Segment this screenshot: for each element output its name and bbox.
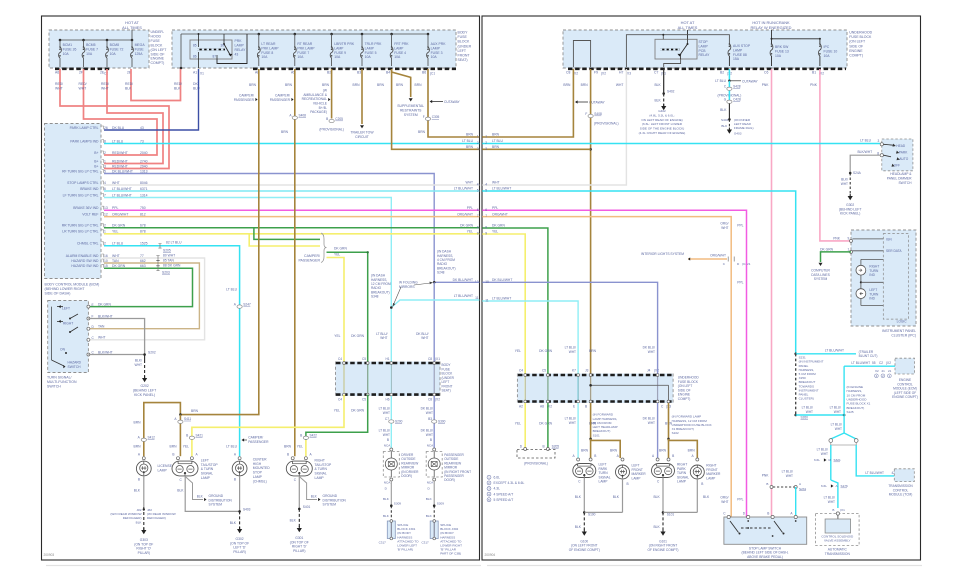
svg-text:BRN: BRN — [492, 145, 500, 149]
svg-text:PCB: PCB — [699, 49, 707, 53]
svg-text:EXCEPT 4.3L & 6.6L: EXCEPT 4.3L & 6.6L — [494, 481, 525, 485]
svg-text:WHT: WHT — [383, 411, 390, 415]
svg-text:BLK: BLK — [426, 497, 433, 501]
svg-text:(X2: (X2 — [886, 361, 891, 365]
svg-text:SIDE OF DASH): SIDE OF DASH) — [45, 292, 71, 296]
wire LT BLU/WHT branch exit11 — [390, 300, 479, 309]
fuse AUX PRK — [427, 34, 447, 66]
svg-text:F: F — [585, 112, 587, 116]
svg-text:BRN: BRN — [191, 409, 199, 413]
svg-text:DK GRN: DK GRN — [492, 224, 505, 228]
headlamp panel dimmer switch box — [880, 139, 913, 171]
svg-text:E: E — [573, 404, 575, 408]
svg-text:RELAY: RELAY — [235, 48, 247, 52]
underhood fuse block box — [49, 30, 149, 68]
svg-text:X2: X2 — [875, 369, 879, 373]
wire pnk below link — [795, 487, 797, 517]
svg-text:YEL: YEL — [334, 253, 340, 257]
svg-text:IPC: IPC — [824, 45, 830, 49]
svg-text:WHT: WHT — [648, 421, 655, 425]
svg-text:1: 1 — [485, 135, 487, 139]
svg-text:2740: 2740 — [140, 159, 148, 163]
wire WHT alarm enable — [88, 258, 204, 340]
svg-text:10A: 10A — [86, 52, 93, 56]
svg-text:9: 9 — [848, 236, 850, 240]
svg-text:LF TURN SIG LP CTRL: LF TURN SIG LP CTRL — [63, 193, 99, 197]
svg-text:PACKAGE): PACKAGE) — [310, 110, 327, 114]
svg-text:DK BLU: DK BLU — [112, 126, 125, 130]
svg-text:BLK: BLK — [575, 495, 582, 499]
box1 pin labels — [55, 71, 132, 76]
svg-text:82 LT BLU: 82 LT BLU — [166, 241, 182, 245]
svg-text:SUPPLEMENTAL: SUPPLEMENTAL — [397, 104, 424, 108]
fuse BCM1 — [59, 40, 77, 67]
svg-text:10A: 10A — [365, 55, 372, 59]
svg-text:SWITCH: SWITCH — [898, 181, 912, 185]
svg-text:ALL TIMES: ALL TIMES — [678, 25, 698, 30]
svg-text:WHT: WHT — [112, 254, 120, 258]
svg-text:DK GRN: DK GRN — [112, 264, 126, 268]
svg-text:S401: S401 — [303, 505, 311, 509]
svg-text:LT BLU/WHT: LT BLU/WHT — [492, 187, 511, 191]
svg-text:FRONT: FRONT — [458, 54, 471, 58]
right lamps ground — [653, 478, 710, 532]
svg-text:21: 21 — [888, 369, 892, 373]
svg-text:S205: S205 — [163, 249, 171, 253]
svg-text:LT BLU/WHT: LT BLU/WHT — [825, 348, 844, 352]
forward lamp harness label R — [672, 415, 712, 436]
svg-text:5: 5 — [477, 189, 479, 193]
svg-text:RED/WHT: RED/WHT — [112, 164, 128, 168]
svg-text:SEAT): SEAT) — [442, 389, 451, 393]
svg-text:ORG/WHT: ORG/WHT — [112, 212, 128, 216]
svg-text:BRN: BRN — [688, 449, 696, 453]
svg-text:RESTRAINTS: RESTRAINTS — [400, 108, 422, 112]
blk wht pin label — [857, 150, 879, 156]
ground G402 — [639, 104, 686, 135]
svg-text:PART OF C3B): PART OF C3B) — [440, 552, 461, 556]
fuse LT REAR — [257, 34, 279, 66]
svg-text:BLK/WHT: BLK/WHT — [98, 350, 113, 354]
svg-text:PASSENGER: PASSENGER — [298, 259, 320, 263]
underhood block R label — [678, 376, 700, 402]
svg-text:LAMP: LAMP — [235, 44, 245, 48]
svg-text:PNK: PNK — [762, 83, 770, 87]
svg-text:(ON LEFT: (ON LEFT — [849, 40, 866, 44]
wire DK BLU/WHT rf turn — [104, 174, 434, 283]
svg-text:BLK: BLK — [703, 495, 710, 499]
svg-text:ORG/WHT: ORG/WHT — [492, 212, 508, 216]
svg-text:LAMP: LAMP — [632, 476, 642, 480]
svg-text:B2: B2 — [327, 71, 331, 75]
svg-text:DOOR): DOOR) — [401, 474, 412, 478]
svg-text:B: B — [542, 444, 544, 448]
block R wire labels below — [515, 417, 673, 426]
svg-text:BLK/WHT: BLK/WHT — [98, 314, 113, 318]
engine legend — [487, 475, 524, 502]
wire LT BLU b2 — [715, 69, 731, 83]
svg-text:LAMP: LAMP — [677, 480, 687, 484]
svg-text:BLK/WHT: BLK/WHT — [857, 150, 872, 154]
svg-text:B: B — [430, 438, 432, 442]
svg-text:WHT: WHT — [55, 86, 63, 90]
svg-text:BRAKE 36V IND: BRAKE 36V IND — [73, 206, 99, 210]
svg-text:PPL: PPL — [737, 224, 743, 228]
right front marker lamp — [690, 454, 721, 486]
svg-text:C5: C5 — [542, 369, 546, 373]
svg-text:12: 12 — [104, 212, 108, 216]
lbr connector — [319, 117, 344, 132]
fuse LBR/TR PRK — [330, 34, 355, 66]
wire BLK/WHT headlamp gnd — [841, 155, 880, 196]
w folding mirrors label — [393, 281, 434, 307]
wire RED/BLK mega fuse loop — [131, 69, 181, 101]
svg-text:CUTAWAY: CUTAWAY — [444, 100, 461, 104]
svg-text:3: 3 — [485, 147, 487, 151]
hot in run label — [751, 20, 792, 30]
svg-text:BLUNT CUT): BLUNT CUT) — [859, 354, 878, 358]
svg-text:WHT: WHT — [835, 427, 842, 431]
svg-text:BLK: BLK — [197, 494, 204, 498]
svg-text:9: 9 — [477, 231, 479, 235]
svg-text:4 SPEED A/T: 4 SPEED A/T — [494, 492, 514, 496]
svg-text:G403: G403 — [734, 132, 742, 136]
camper passenger brace — [298, 233, 326, 263]
svg-text:WHT: WHT — [648, 350, 655, 354]
svg-text:C5: C5 — [362, 357, 366, 361]
svg-text:HEAD: HEAD — [896, 144, 906, 148]
svg-text:TRANSMISSION: TRANSMISSION — [825, 552, 851, 556]
svg-text:MULTI-FUNCTION: MULTI-FUNCTION — [47, 380, 77, 384]
srs label — [397, 104, 424, 117]
tan inline labels — [156, 258, 174, 265]
svg-text:CUTAWAY: CUTAWAY — [589, 101, 606, 105]
svg-text:SIDE OF THE ENGINE BLOCK): SIDE OF THE ENGINE BLOCK) — [640, 127, 684, 131]
svg-text:BCM1: BCM1 — [63, 43, 73, 47]
trailer blunt cut branch — [796, 348, 878, 358]
svg-text:SWITCH: SWITCH — [47, 385, 61, 389]
svg-text:LAMP: LAMP — [394, 46, 404, 50]
right page border — [482, 16, 921, 560]
turn signal switch box — [48, 301, 89, 373]
splice on rt rear brn — [281, 114, 306, 134]
svg-text:INTERIOR LIGHTS SYSTEM: INTERIOR LIGHTS SYSTEM — [641, 252, 684, 256]
svg-text:8: 8 — [485, 225, 487, 229]
svg-text:C305: C305 — [432, 115, 440, 119]
svg-text:OFF: OFF — [894, 164, 900, 168]
svg-text:WHT: WHT — [828, 500, 835, 504]
svg-text:C8: C8 — [566, 71, 570, 75]
control solenoid box — [816, 512, 860, 546]
svg-text:4: 4 — [104, 181, 106, 185]
svg-text:BRN: BRN — [322, 83, 330, 87]
svg-text:LT BLU/WHT: LT BLU/WHT — [112, 187, 132, 191]
svg-text:LAMP: LAMP — [158, 468, 168, 472]
svg-text:S408: S408 — [299, 114, 307, 118]
svg-text:5: 5 — [104, 169, 106, 173]
svg-text:LAMP: LAMP — [699, 44, 709, 48]
wire LT BLU headlamp — [482, 139, 880, 144]
svg-text:LR TURN SIG LP CTRL: LR TURN SIG LP CTRL — [62, 230, 98, 234]
wire YEL to provisional — [520, 403, 527, 451]
wire BRN lbr/tr fuse drop — [331, 69, 333, 119]
svg-text:B: B — [326, 117, 328, 121]
stop lamp switch label — [742, 546, 789, 559]
svg-text:OF ENGINE COMPT): OF ENGINE COMPT) — [569, 548, 600, 552]
svg-text:7: 7 — [485, 214, 487, 218]
svg-text:10: 10 — [485, 280, 489, 284]
chmsl inline connector — [158, 241, 182, 253]
svg-text:LEFT: LEFT — [458, 49, 467, 53]
wire DK BLU/WHT branch exit10 — [433, 281, 479, 362]
svg-text:BLK: BLK — [174, 86, 181, 90]
wire WHT h7 — [482, 69, 626, 185]
svg-text:YEL: YEL — [334, 409, 340, 413]
svg-text:FUSE: FUSE — [458, 35, 468, 39]
relay feed wire — [687, 30, 689, 39]
svg-text:AUX PRK: AUX PRK — [431, 42, 447, 46]
svg-text:(CHMSL): (CHMSL) — [253, 479, 267, 483]
svg-text:B+: B+ — [94, 151, 98, 155]
bus wire box1 — [59, 30, 134, 42]
wire BRN exit3 R — [482, 148, 590, 150]
wire DK BLU relay to BCM pin26 — [104, 69, 199, 130]
ambulance label — [302, 89, 331, 115]
trailer tow label — [350, 131, 374, 139]
svg-text:MEGA: MEGA — [135, 43, 146, 47]
svg-text:LT BLU/WHT: LT BLU/WHT — [851, 361, 870, 365]
svg-text:ORG/WHT: ORG/WHT — [457, 212, 473, 216]
svg-text:BLK: BLK — [575, 525, 582, 529]
svg-text:11: 11 — [485, 299, 489, 303]
chmsl wire label — [226, 288, 251, 449]
svg-text:LT BLU: LT BLU — [860, 139, 871, 143]
wire LT BLU park lamps ind — [104, 143, 479, 145]
yel dkgrn labels below — [334, 409, 365, 413]
svg-text:10A: 10A — [824, 54, 831, 58]
svg-text:BRN: BRN — [415, 83, 423, 87]
svg-text:4: 4 — [477, 183, 479, 187]
connector block internal wires R — [524, 374, 670, 403]
svg-text:CAMPER/: CAMPER/ — [304, 254, 320, 258]
svg-text:RT REAR: RT REAR — [297, 42, 312, 46]
wire BRN to left park — [589, 403, 592, 458]
svg-text:BLK: BLK — [383, 497, 390, 501]
svg-text:PRK LAMP: PRK LAMP — [297, 46, 315, 50]
ground G301 — [290, 526, 309, 553]
svg-text:DK GRN: DK GRN — [460, 224, 473, 228]
svg-text:ON LEFT REAR OF ENGINE): ON LEFT REAR OF ENGINE) — [641, 118, 682, 122]
svg-text:BODY CONTROL MODULE (BCM): BODY CONTROL MODULE (BCM) — [45, 283, 100, 287]
svg-text:PARK LAMP CTRL: PARK LAMP CTRL — [70, 126, 99, 130]
svg-text:10A: 10A — [63, 52, 70, 56]
boxR pin labels — [566, 71, 824, 76]
svg-text:WHT: WHT — [101, 86, 109, 90]
left tail ground wire — [177, 476, 239, 512]
wire YEL camper to block — [327, 258, 345, 362]
svg-text:ENGINE: ENGINE — [849, 49, 863, 53]
svg-text:CIRCUIT: CIRCUIT — [355, 135, 369, 139]
svg-text:LAMP: LAMP — [733, 48, 743, 52]
svg-text:BCM5: BCM5 — [86, 43, 96, 47]
svg-text:BLOCK: BLOCK — [458, 40, 471, 44]
engine harness label — [847, 385, 871, 414]
wire YEL to camper brace — [249, 234, 320, 246]
underhood fuse block R — [563, 30, 847, 68]
svg-text:S412: S412 — [148, 436, 156, 440]
svg-text:10A: 10A — [775, 54, 782, 58]
cutaway branch b2 — [729, 79, 758, 83]
svg-text:DK GRN: DK GRN — [334, 246, 347, 250]
svg-text:WHT: WHT — [465, 181, 473, 185]
connector pin labels — [338, 357, 440, 401]
svg-text:VALVE ASSEMBLY: VALVE ASSEMBLY — [824, 539, 851, 543]
svg-text:PRK LAMP: PRK LAMP — [261, 46, 279, 50]
svg-text:FRT PRK: FRT PRK — [394, 42, 409, 46]
wire BRN left tail branch — [179, 415, 181, 457]
svg-text:BRN: BRN — [285, 83, 293, 87]
svg-text:LT BLU/WHT: LT BLU/WHT — [112, 193, 132, 197]
svg-text:S300: S300 — [438, 420, 446, 424]
svg-text:BRN: BRN — [563, 83, 571, 87]
svg-text:TRAILER TOW: TRAILER TOW — [350, 131, 374, 135]
svg-text:PILLAR): PILLAR) — [138, 551, 150, 555]
svg-text:200904: 200904 — [485, 553, 496, 557]
svg-text:125A: 125A — [135, 52, 144, 56]
svg-text:SIDE OF: SIDE OF — [849, 44, 863, 48]
svg-text:7: 7 — [477, 214, 479, 218]
svg-text:YEL: YEL — [467, 230, 473, 234]
svg-text:BLK: BLK — [177, 489, 184, 493]
fuse MEGA — [131, 40, 146, 67]
right park turn signal lamp — [652, 454, 690, 484]
svg-text:NCA: NCA — [427, 444, 434, 448]
stop lamp switch box — [723, 511, 807, 544]
svg-text:DK GRN: DK GRN — [539, 422, 552, 426]
wire BRN to right marker — [669, 439, 698, 458]
svg-text:BCM8: BCM8 — [110, 43, 120, 47]
svg-text:30: 30 — [221, 44, 225, 48]
svg-text:F: F — [423, 115, 425, 119]
svg-text:LT BLU: LT BLU — [112, 139, 124, 143]
svg-text:PARK LAMPS IND: PARK LAMPS IND — [70, 139, 99, 143]
svg-text:S348: S348 — [371, 295, 379, 299]
svg-text:RELAY W ENERGIZED: RELAY W ENERGIZED — [751, 25, 792, 30]
svg-text:(X1: (X1 — [840, 508, 845, 512]
transmission control module box — [888, 469, 914, 497]
svg-text:WHT: WHT — [79, 86, 87, 90]
wire YEL left tail pin — [191, 440, 193, 456]
edge labels left panel — [453, 133, 479, 300]
svg-text:S309: S309 — [437, 502, 445, 506]
svg-text:H1: H1 — [386, 357, 390, 361]
svg-text:COMPT): COMPT) — [849, 54, 863, 58]
s260 junction — [794, 406, 813, 420]
svg-text:LT BLU: LT BLU — [226, 288, 237, 292]
svg-text:3: 3 — [104, 164, 106, 168]
wire PNK ipc — [810, 69, 851, 241]
wire PNK brk sw — [762, 69, 772, 517]
svg-text:4: 4 — [485, 183, 487, 187]
ground G302 R — [839, 194, 862, 216]
switch row color labels — [98, 303, 113, 355]
forward lamp harness label L — [593, 413, 618, 438]
svg-text:2F: 2F — [79, 71, 83, 75]
svg-text:B+: B+ — [94, 164, 98, 168]
wire YEL prov — [482, 234, 525, 374]
svg-text:B: B — [234, 478, 236, 482]
wire BRN lt rear fuse drop — [180, 69, 258, 415]
svg-text:YEL: YEL — [183, 445, 189, 449]
svg-text:1525: 1525 — [140, 242, 148, 246]
box2 pin labels — [193, 71, 435, 76]
svg-text:B4: B4 — [386, 71, 390, 75]
svg-text:DK GRN: DK GRN — [351, 334, 364, 338]
b2 connector chain — [718, 81, 754, 130]
svg-text:BRN: BRN — [134, 421, 142, 425]
svg-text:6.6L: 6.6L — [494, 476, 501, 480]
svg-text:PPL: PPL — [737, 498, 743, 502]
svg-text:YEL: YEL — [515, 349, 521, 353]
svg-text:HAZARD SW IND: HAZARD SW IND — [71, 264, 99, 268]
svg-text:RR TURN SIG LP CTRL: RR TURN SIG LP CTRL — [62, 224, 99, 228]
svg-text:TAN: TAN — [112, 259, 119, 263]
svg-text:WHT: WHT — [134, 363, 142, 367]
svg-text:BLK: BLK — [613, 495, 620, 499]
svg-text:LAMP: LAMP — [365, 46, 375, 50]
svg-text:BLK: BLK — [426, 514, 433, 518]
svg-text:S421: S421 — [196, 434, 204, 438]
relay output wire — [0, 0, 1, 1]
svg-text:PRK: PRK — [235, 39, 243, 43]
svg-text:2: 2 — [485, 141, 487, 145]
svg-text:BLOCK: BLOCK — [151, 43, 164, 47]
svg-text:STOP LAMPS CTRL: STOP LAMPS CTRL — [67, 181, 98, 185]
svg-text:(X1: (X1 — [435, 357, 440, 361]
svg-text:FRAME RAIL): FRAME RAIL) — [734, 126, 754, 130]
svg-text:S231: S231 — [799, 487, 807, 491]
svg-text:3: 3 — [878, 139, 880, 143]
svg-text:S309: S309 — [394, 502, 402, 506]
svg-text:(PROVISIONAL): (PROVISIONAL) — [594, 121, 619, 125]
svg-text:E: E — [92, 303, 94, 307]
wire DK GRN ser data — [819, 247, 852, 266]
svg-text:DK BLU/WHT: DK BLU/WHT — [492, 278, 512, 282]
svg-text:H6: H6 — [386, 397, 390, 401]
svg-text:C7: C7 — [654, 71, 658, 75]
automatic transmission label — [825, 548, 851, 556]
hot at all times label L — [122, 20, 142, 30]
fuse FRT PRK — [390, 34, 409, 66]
svg-text:LT BLU: LT BLU — [462, 139, 473, 143]
svg-text:FUSE 4: FUSE 4 — [394, 51, 406, 55]
svg-text:S248: S248 — [437, 271, 445, 275]
svg-text:(4.3L: RIGHT REAR OF ENGINE): (4.3L: RIGHT REAR OF ENGINE) — [639, 131, 686, 135]
svg-text:DOOR): DOOR) — [444, 478, 455, 482]
block R wire labels above — [515, 346, 655, 354]
svg-text:WHT: WHT — [112, 181, 120, 185]
svg-text:B: B — [387, 438, 389, 442]
svg-text:RIGHT: RIGHT — [63, 321, 73, 325]
svg-text:PPL: PPL — [112, 206, 119, 210]
svg-text:(6.6L: LEFT FRONT LOWER: (6.6L: LEFT FRONT LOWER — [642, 122, 683, 126]
radio breakout label 348 — [371, 274, 391, 299]
svg-text:TURN SIGNAL/: TURN SIGNAL/ — [47, 376, 72, 380]
svg-text:WHT: WHT — [98, 336, 106, 340]
svg-text:15: 15 — [104, 264, 108, 268]
svg-text:SYSTEM: SYSTEM — [404, 113, 418, 117]
body fuse block label — [458, 31, 472, 63]
